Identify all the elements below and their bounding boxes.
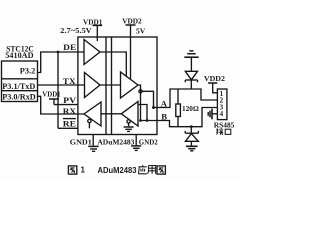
svg-text:P3.1/TxD: P3.1/TxD	[2, 82, 35, 91]
svg-text:A: A	[161, 99, 168, 109]
svg-text:VDD2: VDD2	[204, 74, 225, 83]
svg-text:RE: RE	[63, 120, 77, 129]
svg-text:RS485: RS485	[214, 121, 235, 130]
svg-text:TX: TX	[63, 77, 76, 86]
svg-text:ADuM2483: ADuM2483	[97, 138, 134, 147]
svg-text:GND2: GND2	[139, 137, 158, 146]
svg-text:5410AD: 5410AD	[5, 51, 33, 60]
svg-text:120Ω: 120Ω	[182, 104, 199, 113]
svg-text:GND1: GND1	[70, 137, 92, 146]
svg-text:5V: 5V	[136, 27, 146, 36]
svg-text:VDD1: VDD1	[42, 90, 61, 99]
svg-text:RX: RX	[63, 107, 76, 116]
svg-text:B: B	[161, 112, 167, 122]
svg-text:4: 4	[220, 110, 224, 118]
svg-text:ADuM2483: ADuM2483	[98, 166, 138, 175]
svg-text:P3.2: P3.2	[20, 67, 36, 76]
svg-text:DE: DE	[63, 43, 77, 52]
svg-text:PV: PV	[63, 96, 76, 105]
svg-text:1: 1	[81, 166, 86, 175]
svg-text:VDD2: VDD2	[122, 16, 142, 25]
svg-text:P3.0/RxD: P3.0/RxD	[2, 92, 36, 101]
svg-text:2.7~5.5V: 2.7~5.5V	[60, 26, 92, 35]
